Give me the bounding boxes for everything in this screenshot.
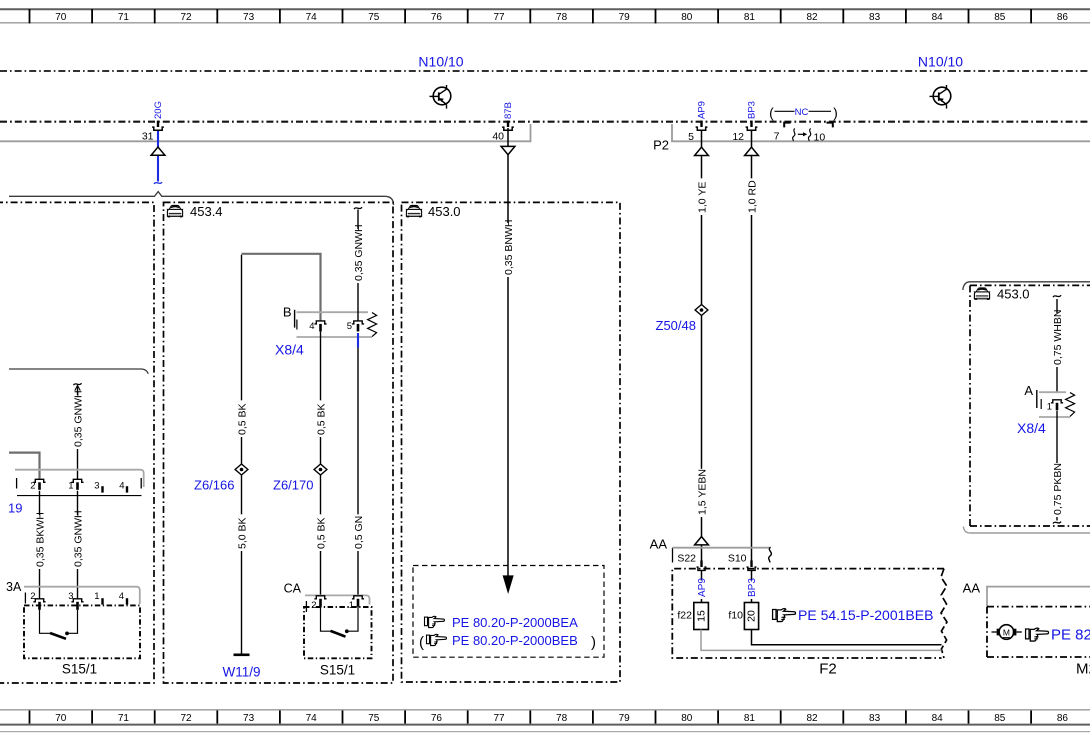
svg-text:PE 82.35-P: PE 82.35-P (1051, 627, 1090, 644)
svg-text:82: 82 (806, 12, 818, 23)
svg-text:S10: S10 (728, 553, 747, 565)
svg-text:73: 73 (243, 12, 255, 23)
svg-text:M2: M2 (1076, 661, 1090, 678)
svg-text:W11/9: W11/9 (222, 665, 260, 680)
svg-text:0,5 BK: 0,5 BK (315, 517, 327, 549)
svg-text:1: 1 (94, 591, 99, 602)
svg-text:73: 73 (243, 713, 255, 724)
svg-text:80: 80 (681, 12, 693, 23)
svg-text:20G: 20G (153, 101, 164, 119)
svg-text:74: 74 (306, 713, 318, 724)
svg-text:79: 79 (619, 713, 631, 724)
svg-text:70: 70 (55, 12, 67, 23)
svg-text:1,0 YE: 1,0 YE (696, 182, 708, 213)
svg-text:4: 4 (309, 321, 314, 332)
svg-text:71: 71 (118, 713, 130, 724)
svg-text:M: M (1003, 627, 1010, 637)
svg-text:PE 54.15-P-2001BEB: PE 54.15-P-2001BEB (798, 607, 933, 623)
svg-text:CA: CA (284, 581, 302, 595)
svg-text:(: ( (419, 634, 424, 651)
svg-text:83: 83 (869, 713, 881, 724)
svg-text:S15/1: S15/1 (320, 663, 355, 678)
svg-text:AP9: AP9 (696, 101, 707, 119)
svg-text:15: 15 (695, 610, 707, 622)
svg-text:0,35 GNWH: 0,35 GNWH (72, 510, 84, 567)
svg-text:AA: AA (963, 580, 981, 595)
svg-text:1: 1 (349, 600, 354, 611)
svg-text:71: 71 (118, 12, 130, 23)
svg-text:84: 84 (932, 12, 944, 23)
svg-text:78: 78 (556, 713, 568, 724)
svg-text:Z6/166: Z6/166 (194, 478, 234, 493)
svg-text:74: 74 (306, 12, 318, 23)
svg-text:3: 3 (94, 481, 99, 492)
svg-text:75: 75 (368, 12, 380, 23)
svg-text:72: 72 (180, 12, 192, 23)
svg-text:0,35 GNWH: 0,35 GNWH (353, 224, 365, 281)
svg-text:1,0 RD: 1,0 RD (746, 180, 758, 213)
svg-text:19: 19 (8, 501, 22, 516)
svg-text:40: 40 (492, 131, 504, 143)
svg-text:4: 4 (119, 591, 124, 602)
svg-text:10: 10 (814, 131, 826, 143)
svg-text:S22: S22 (677, 553, 696, 565)
svg-text:F2: F2 (819, 661, 837, 678)
svg-text:AA: AA (650, 537, 668, 552)
svg-text:3A: 3A (6, 580, 22, 594)
svg-text:85: 85 (994, 713, 1006, 724)
svg-text:0,35 BNWH: 0,35 BNWH (503, 220, 515, 275)
svg-text:0,5 GN: 0,5 GN (353, 516, 365, 549)
svg-text:76: 76 (431, 12, 443, 23)
svg-text:0,75 WHBN: 0,75 WHBN (1052, 310, 1064, 365)
svg-text:72: 72 (180, 713, 192, 724)
svg-text:0,5 BK: 0,5 BK (236, 403, 248, 435)
svg-text:0,35 BKWH: 0,35 BKWH (34, 512, 46, 567)
svg-text:76: 76 (431, 713, 443, 724)
svg-text:f10: f10 (728, 610, 743, 622)
svg-text:Z50/48: Z50/48 (656, 318, 696, 333)
svg-text:81: 81 (744, 12, 756, 23)
svg-text:75: 75 (368, 713, 380, 724)
svg-text:N10/10: N10/10 (918, 54, 963, 70)
svg-text:BP3: BP3 (747, 578, 758, 597)
svg-text:BP3: BP3 (746, 101, 757, 119)
svg-text:A: A (1024, 383, 1033, 398)
svg-text:2: 2 (311, 600, 316, 611)
svg-text:PE 80.20-P-2000BEA: PE 80.20-P-2000BEA (452, 615, 578, 630)
svg-text:0,5 BK: 0,5 BK (315, 403, 327, 435)
svg-text:(: ( (769, 105, 774, 121)
svg-text:453.0: 453.0 (428, 204, 461, 219)
svg-text:80: 80 (681, 713, 693, 724)
svg-text:NC: NC (795, 107, 809, 118)
svg-text:81: 81 (744, 713, 756, 724)
svg-text:0,35 GNWH: 0,35 GNWH (72, 390, 84, 447)
svg-text:12: 12 (732, 131, 744, 143)
svg-text:77: 77 (493, 713, 505, 724)
svg-text:85: 85 (994, 12, 1006, 23)
svg-text:1,5 YEBN: 1,5 YEBN (696, 469, 708, 515)
svg-text:f22: f22 (677, 610, 692, 622)
svg-text:PE 80.20-P-2000BEB: PE 80.20-P-2000BEB (452, 633, 578, 648)
svg-text:83: 83 (869, 12, 881, 23)
svg-text:453.0: 453.0 (997, 286, 1030, 301)
svg-text:AP9: AP9 (697, 578, 708, 597)
svg-text:S15/1: S15/1 (62, 662, 97, 677)
svg-text:Z6/170: Z6/170 (273, 478, 313, 493)
svg-text:79: 79 (619, 12, 631, 23)
svg-text:0,75 PKBN: 0,75 PKBN (1052, 463, 1064, 515)
svg-text:86: 86 (1057, 713, 1069, 724)
svg-text:82: 82 (806, 713, 818, 724)
svg-text:5: 5 (347, 321, 352, 332)
svg-text:86: 86 (1057, 12, 1069, 23)
svg-text:87B: 87B (503, 102, 514, 119)
svg-text:): ) (591, 634, 596, 651)
svg-text:B: B (283, 305, 292, 320)
svg-text:5: 5 (688, 131, 694, 143)
svg-text:P2: P2 (653, 138, 669, 153)
svg-text:78: 78 (556, 12, 568, 23)
svg-text:70: 70 (55, 713, 67, 724)
svg-text:): ) (833, 105, 838, 121)
svg-text:7: 7 (774, 130, 780, 142)
svg-text:31: 31 (142, 131, 154, 143)
svg-text:N10/10: N10/10 (418, 54, 463, 70)
svg-text:453.4: 453.4 (190, 204, 223, 219)
svg-text:5,0 BK: 5,0 BK (236, 517, 248, 549)
svg-text:X8/4: X8/4 (275, 342, 304, 358)
svg-text:4: 4 (119, 481, 124, 492)
svg-text:77: 77 (493, 12, 505, 23)
svg-text:84: 84 (932, 713, 944, 724)
svg-text:X8/4: X8/4 (1017, 420, 1046, 436)
svg-text:20: 20 (746, 610, 758, 622)
